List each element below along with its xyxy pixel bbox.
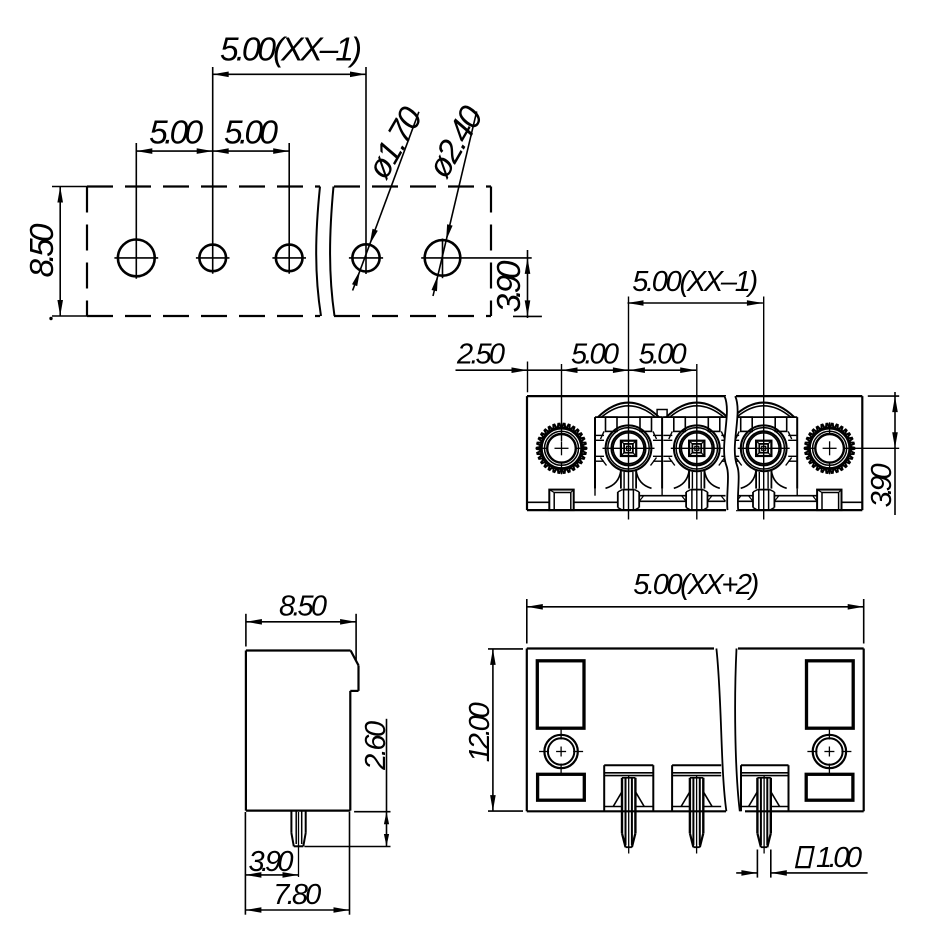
hole H3 (drill) [272,143,306,274]
view1 PCB outline left segment (dashed) [87,187,320,317]
pin module P1 (top view) [595,403,662,489]
dimension 8.50 (view1) [24,187,99,321]
svg-text:3.90: 3.90 [866,463,898,507]
connector body outline (top view) [527,396,862,510]
knurled screw (left, top view) [536,424,588,475]
solder pin 1 (front view) [613,776,644,854]
pin P3 base foot (top view) [753,490,774,511]
body left edge extension (top view) [527,362,529,393]
dimension square 1.00 (front view) [736,842,867,878]
solder pin (side view) [291,811,305,877]
view1 break lines [316,187,334,317]
body outline (side view) [246,651,359,811]
break lines (front view) [716,649,739,812]
pin module P2 (top view) [663,403,730,489]
svg-text:5.00: 5.00 [571,339,619,371]
hole H1 (drill) [114,143,158,279]
knurled screw (right, top view) [804,422,900,474]
svg-text:7.80: 7.80 [273,879,321,911]
pin module M1 (front view) [604,765,653,811]
dimension 3.90 (top view) [866,392,899,515]
svg-text:2.50: 2.50 [456,339,505,371]
screw hole circle (right, front view) [807,730,851,774]
pin module M2 (front view) [672,765,721,811]
label Ø1.70 [360,101,430,186]
pin P3 centerline / extension [763,297,765,520]
svg-text:5.00: 5.00 [224,115,278,152]
svg-text:5.00(XX–1): 5.00(XX–1) [632,266,758,298]
hole H2 (drill) [196,67,230,274]
svg-text:3.90: 3.90 [491,260,528,312]
svg-text:3.90: 3.90 [249,846,294,878]
dimension 3.90 (view1) [491,250,542,318]
screw window (right, front view) [807,661,854,728]
dimension 2.50 (top view) [456,339,562,373]
base strip lines (top view) [527,489,862,503]
svg-text:5.00(XX+2): 5.00(XX+2) [633,569,759,601]
svg-text:8.50: 8.50 [279,591,327,623]
hole H4 (drill) [349,67,383,274]
break lines (top view) [724,396,739,510]
dimension 8.50 (side view) [246,591,356,660]
leader diameter 1.70 arrow [352,112,419,291]
mounting foot (right, top view) [817,490,841,511]
pin P1 base foot (top view) [618,490,639,511]
svg-text:5.00(XX–1): 5.00(XX–1) [220,32,362,69]
leader diameter 2.40 arrow [432,111,477,296]
dimension 5.00 5.00 (top view) [562,339,697,373]
wire entry (right, front view) [806,774,853,800]
dimension 2.60 (side view) [305,719,393,847]
hole H5 (drill) [421,239,532,279]
knurl left extension line [561,364,563,441]
svg-text:8.50: 8.50 [24,223,61,277]
dimension 5.00 5.00 (view1) [136,115,289,154]
svg-text:12.00: 12.00 [464,702,496,762]
solder pin 3 (front view) [749,776,780,854]
pin module P3 (top view) [730,403,797,489]
pin P2 centerline / extension [696,364,698,520]
screw hole circle (left, front view) [539,730,583,774]
module housing walls (top view) [595,410,797,489]
solder pin 2 (front view) [681,776,712,854]
dimension 7.80 (side view) [245,812,349,915]
pin P1 centerline / extension [628,297,630,520]
body outline (front view) [527,649,864,812]
label Ø2.40 [421,100,491,185]
svg-text:2.60: 2.60 [360,721,392,771]
pin module M3 (front view) [741,765,789,811]
pin P2 base foot (top view) [686,490,707,511]
mounting foot (left, top view) [549,490,573,511]
svg-text:5.00: 5.00 [639,339,687,371]
svg-text:1.00: 1.00 [816,842,862,874]
svg-text:5.00: 5.00 [149,115,203,152]
dimension 3.90 (side view) [245,810,298,915]
wire entry (left, front view) [538,774,585,800]
dimension 5.00(XX-1) (view1) [213,32,366,78]
screw window (left, front view) [537,661,584,728]
dimension 5.00(XX-1) (top view) [628,266,763,306]
dimension 5.00(XX+2) (front view) [527,569,864,643]
view1 PCB outline right segment (dashed) [334,187,491,317]
dimension 12.00 (front view) [464,649,523,811]
